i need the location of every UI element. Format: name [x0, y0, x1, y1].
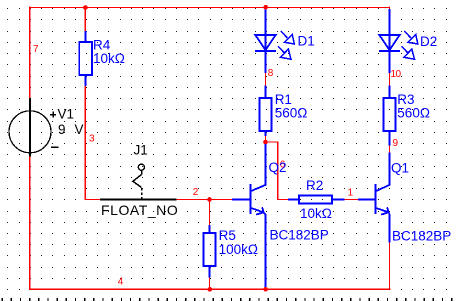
label FLOAT_NO [101, 202, 178, 218]
label BC182BP Q1 [392, 229, 451, 244]
resistor R2 [288, 196, 345, 204]
svg-text:560Ω: 560Ω [275, 105, 308, 120]
wire Q1 emitter down [389, 243, 391, 290]
value 10k [300, 206, 332, 221]
svg-text:10: 10 [391, 69, 402, 80]
svg-text:D2: D2 [420, 34, 437, 49]
node 1 [348, 188, 354, 199]
wire node 2 to R5 top [209, 200, 211, 226]
wire bottom rail node 4 [30, 288, 391, 290]
svg-text:7: 7 [33, 44, 39, 55]
wire D1 top [265, 8, 267, 11]
svg-text:8: 8 [268, 68, 274, 79]
svg-text:FLOAT_NO: FLOAT_NO [101, 202, 178, 218]
wire D1 to R1 node 8 [265, 73, 267, 86]
wire D2 to R3 node 10 [389, 73, 391, 86]
junction node 6 [263, 140, 268, 145]
svg-text:2: 2 [193, 187, 199, 198]
resistor R3 [384, 86, 396, 146]
wire left rail to V1 plus [29, 7, 31, 98]
svg-text:10kΩ: 10kΩ [93, 51, 125, 66]
value 560 [275, 105, 308, 120]
bottom edge tick marks [2, 298, 453, 301]
svg-text:Q1: Q1 [391, 161, 409, 176]
svg-text:100kΩ: 100kΩ [219, 242, 258, 257]
wire R5 bottom [209, 278, 211, 290]
svg-text:BC182BP: BC182BP [392, 229, 451, 244]
junction D1 top [263, 5, 268, 10]
node 10 [391, 69, 402, 80]
junction node 2 [207, 197, 212, 202]
svg-text:10kΩ: 10kΩ [300, 206, 332, 221]
svg-text:V1: V1 [58, 107, 75, 122]
resistor R5 [204, 225, 216, 278]
svg-text:1: 1 [348, 188, 354, 199]
value 560 [397, 105, 430, 120]
wire V1 minus down left side [29, 156, 31, 290]
battery V1 [9, 98, 58, 157]
wire J1 to node 2 [177, 199, 232, 201]
node 7 [33, 44, 39, 55]
label R5 [219, 228, 236, 243]
wire top rail node 7 [30, 7, 391, 9]
svg-text:D1: D1 [298, 34, 315, 49]
label BC182BP Q2 [270, 228, 329, 243]
label Q2 [269, 160, 287, 175]
svg-text:560Ω: 560Ω [397, 105, 430, 120]
value 100k [219, 242, 258, 257]
node 4 [118, 277, 124, 288]
node 3 [89, 134, 95, 145]
wire R3 to Q1 collector node 9 [389, 146, 391, 153]
resistor R4 [79, 31, 92, 86]
label R4 [93, 38, 111, 53]
svg-text:BC182BP: BC182BP [270, 228, 329, 243]
junction R5 bottom [208, 287, 213, 292]
wire R2 right to Q1 base node 1 [345, 199, 359, 201]
value 10k [93, 51, 125, 66]
node 6 [280, 160, 286, 171]
resistor R1 [260, 86, 272, 137]
svg-text:J1: J1 [134, 143, 148, 158]
label D2 [420, 34, 437, 49]
LED D2 [379, 9, 418, 73]
transistor Q2 [232, 142, 266, 288]
svg-text:9: 9 [393, 138, 399, 149]
wire R4 top [84, 8, 86, 32]
label Q1 [391, 161, 409, 176]
junction Q2 emitter bottom [263, 287, 268, 292]
value 9 V [58, 122, 84, 137]
svg-text:4: 4 [118, 277, 124, 288]
wire R1 bottom to node 6 [265, 136, 267, 142]
svg-text:R2: R2 [306, 178, 323, 193]
node 2 [193, 187, 199, 198]
svg-text:V: V [75, 122, 84, 137]
label R1 [275, 92, 292, 107]
label V1 [58, 107, 75, 122]
node 8 [268, 68, 274, 79]
junction R4 top [83, 5, 88, 10]
LED D1 [255, 10, 294, 74]
label J1 [134, 143, 148, 158]
transistor Q1 [358, 153, 390, 243]
wire D2 top [389, 7, 391, 10]
svg-text:3: 3 [89, 134, 95, 145]
label R2 [306, 178, 323, 193]
svg-text:Q2: Q2 [269, 160, 287, 175]
svg-text:9: 9 [58, 122, 66, 137]
wire R4 bottom to J1 node 3 [85, 86, 101, 200]
switch J1 [100, 164, 177, 199]
node 9 [393, 138, 399, 149]
label D1 [298, 34, 315, 49]
svg-text:R5: R5 [219, 228, 236, 243]
label R3 [397, 92, 414, 107]
wire node 6 to R2 left [265, 142, 288, 200]
